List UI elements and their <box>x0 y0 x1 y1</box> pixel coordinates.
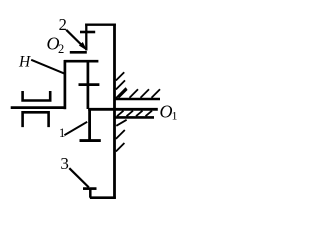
label H leader <box>31 60 64 74</box>
hatching on ring rim right side above ledge <box>116 72 126 98</box>
carrier H input shaft (left) <box>11 106 66 109</box>
svg-text:3: 3 <box>60 154 69 173</box>
label 1 leader <box>64 122 87 135</box>
carrier H left leg <box>64 60 67 109</box>
planet gear 2 stem <box>85 24 87 51</box>
sun gear 1 lower tooth tick <box>80 139 101 142</box>
output shaft O1 (right) <box>88 108 158 111</box>
label 2 leader with arrowhead <box>66 30 81 45</box>
sun gear 1 lower stem <box>88 109 91 141</box>
sun gear 1 upper stem <box>87 60 90 109</box>
svg-text:1: 1 <box>59 125 66 140</box>
ring gear 3 bottom tooth tick <box>83 187 97 190</box>
planet gear 2 axle line at O2 <box>70 51 87 54</box>
label 3 leader <box>69 168 89 187</box>
svg-text:2: 2 <box>58 42 64 56</box>
hatching above lower ledge <box>117 111 152 117</box>
sun gear 1 upper tooth tick <box>79 83 100 86</box>
ring gear 3 bottom rim <box>90 196 116 199</box>
bearing lower bracket <box>23 112 49 127</box>
ring gear 3 bottom stub <box>89 188 92 198</box>
svg-text:1: 1 <box>172 109 178 123</box>
hatching on ring rim right side below ledge <box>116 120 127 152</box>
ring gear 3 right vertical rim <box>113 24 116 199</box>
frame upper ledge <box>115 98 160 101</box>
svg-text:H: H <box>18 54 31 71</box>
hatching above upper ledge <box>119 89 161 98</box>
frame lower ledge <box>115 116 154 119</box>
ring gear 3 top internal tooth tick <box>80 31 95 34</box>
ring gear 3 top rim <box>85 24 116 26</box>
svg-text:2: 2 <box>59 15 67 34</box>
bearing upper U bracket <box>23 91 51 101</box>
arrowhead of leader 2 <box>79 42 87 51</box>
carrier H top bar <box>64 60 98 63</box>
